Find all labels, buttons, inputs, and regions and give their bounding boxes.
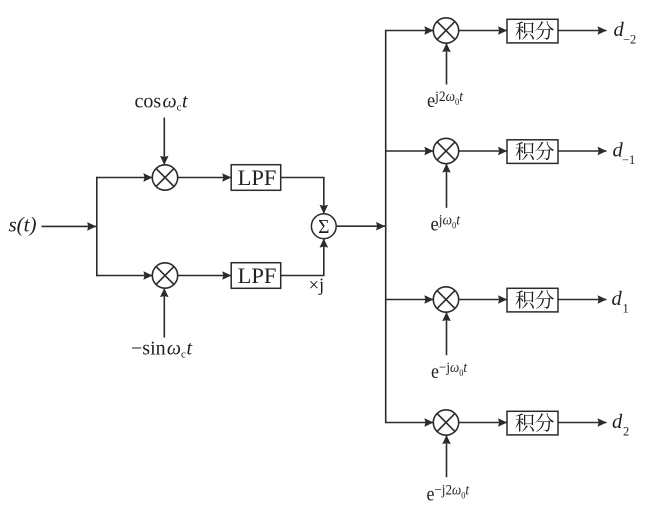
svg-text:d: d (612, 411, 623, 433)
svg-text:×j: ×j (309, 276, 325, 296)
svg-text:−2: −2 (623, 33, 636, 47)
svg-text:LPF: LPF (238, 263, 277, 288)
svg-text:LPF: LPF (238, 165, 277, 190)
svg-text:d: d (612, 288, 623, 310)
svg-text:2: 2 (623, 425, 629, 439)
svg-text:Σ: Σ (318, 217, 329, 238)
svg-text:s(t): s(t) (9, 213, 37, 237)
svg-text:−1: −1 (622, 153, 635, 167)
svg-text:1: 1 (623, 302, 629, 316)
